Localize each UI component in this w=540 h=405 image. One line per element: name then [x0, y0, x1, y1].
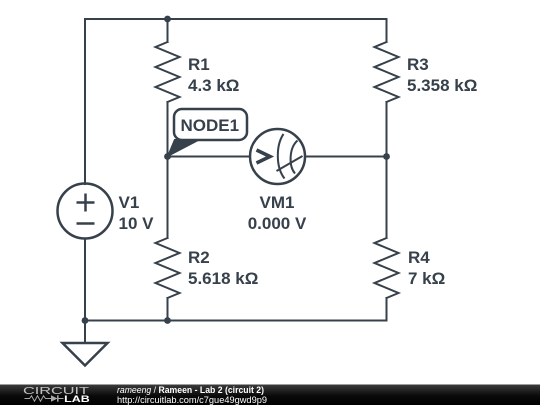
- node NODE1 callout box: [174, 109, 247, 140]
- wire R4 to bottom: [386, 298, 388, 321]
- footer bar: [0, 385, 540, 405]
- svg-text:LAB: LAB: [64, 394, 90, 404]
- wire left vertical (top to V1): [84, 19, 86, 184]
- resistor R2: [156, 238, 180, 298]
- svg-text:10 V: 10 V: [119, 214, 155, 233]
- wire NODE1 to voltmeter: [168, 156, 251, 158]
- svg-text:5.618 kΩ: 5.618 kΩ: [188, 269, 258, 288]
- wire NODE1 junction to R2: [167, 157, 169, 239]
- voltmeter VM1 input mark: [257, 150, 271, 163]
- wire R3 to mid junction: [386, 102, 388, 157]
- svg-text:R1: R1: [188, 55, 210, 74]
- svg-text:R3: R3: [407, 55, 429, 74]
- ground: [63, 343, 108, 366]
- wire middle branch top (top wire to R1): [167, 19, 169, 42]
- svg-text:V1: V1: [119, 193, 140, 212]
- junction dot NODE1: [164, 153, 171, 160]
- svg-text:NODE1: NODE1: [181, 116, 240, 135]
- voltmeter VM1: [250, 129, 305, 184]
- wire top horizontal: [85, 18, 387, 20]
- resistor R1: [156, 42, 180, 102]
- junction dot R2 bottom: [164, 317, 171, 324]
- svg-text:4.3 kΩ: 4.3 kΩ: [188, 76, 239, 95]
- wire voltmeter to right branch: [305, 156, 387, 158]
- svg-text:7 kΩ: 7 kΩ: [408, 269, 445, 288]
- junction dot ground: [82, 317, 89, 324]
- junction dot right mid: [383, 153, 390, 160]
- wire left vertical (V1 to bottom): [84, 239, 86, 321]
- svg-text:http://circuitlab.com/c7gue49g: http://circuitlab.com/c7gue49gwd9p9: [117, 395, 267, 405]
- wire R1 to NODE1 junction: [167, 102, 169, 157]
- svg-text:R4: R4: [408, 248, 430, 267]
- wire mid junction to R4: [386, 157, 388, 239]
- wire right branch top (top wire to R3): [386, 19, 388, 42]
- svg-text:VM1: VM1: [260, 193, 295, 212]
- logo diode symbol: [51, 395, 64, 401]
- wire ground stem: [84, 321, 86, 344]
- junction dot top R1: [164, 16, 171, 23]
- svg-text:5.358 kΩ: 5.358 kΩ: [407, 76, 477, 95]
- resistor R3: [375, 42, 399, 102]
- svg-text:R2: R2: [188, 248, 210, 267]
- logo resistor + diode: [25, 396, 52, 401]
- resistor R4: [375, 238, 399, 298]
- svg-text:0.000 V: 0.000 V: [248, 214, 307, 233]
- wire bottom horizontal: [85, 320, 387, 322]
- wire R2 to bottom: [167, 298, 169, 321]
- node NODE1 callout tail: [168, 140, 201, 157]
- voltage source V1: [58, 184, 113, 239]
